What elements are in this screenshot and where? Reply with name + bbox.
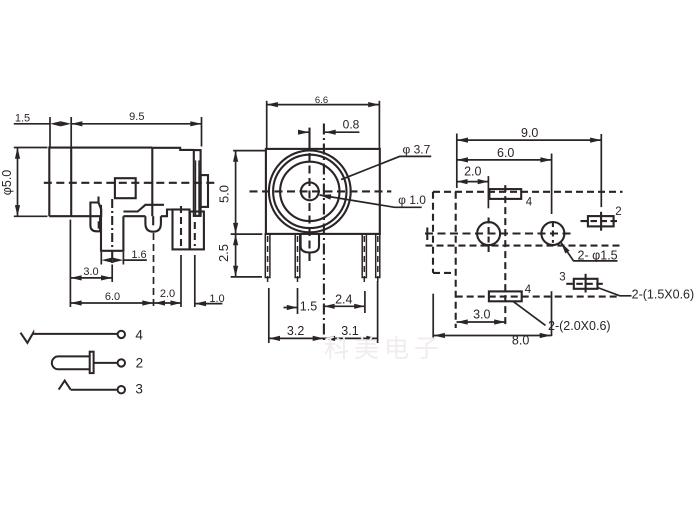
svg-text:2- φ1.5: 2- φ1.5 — [578, 249, 618, 263]
svg-text:2: 2 — [615, 206, 621, 218]
svg-text:3.2: 3.2 — [287, 324, 304, 338]
svg-text:科美电子: 科美电子 — [324, 335, 444, 363]
svg-text:2-(2.0X0.6): 2-(2.0X0.6) — [548, 319, 611, 333]
svg-text:4: 4 — [135, 328, 143, 343]
svg-text:2.4: 2.4 — [335, 293, 352, 307]
svg-text:φ 1.0: φ 1.0 — [398, 193, 426, 207]
svg-text:2.0: 2.0 — [160, 288, 175, 300]
svg-text:2-(1.5X0.6): 2-(1.5X0.6) — [632, 287, 695, 301]
svg-text:1.5: 1.5 — [15, 113, 30, 125]
svg-text:9.5: 9.5 — [129, 111, 144, 123]
svg-text:1.6: 1.6 — [131, 249, 146, 261]
svg-text:6.6: 6.6 — [315, 95, 328, 106]
svg-text:3: 3 — [559, 272, 565, 284]
svg-text:2.0: 2.0 — [464, 165, 481, 179]
svg-text:φ 3.7: φ 3.7 — [403, 142, 431, 156]
svg-text:3: 3 — [135, 382, 143, 397]
svg-text:1.5: 1.5 — [300, 300, 317, 314]
svg-text:9.0: 9.0 — [521, 126, 538, 140]
svg-text:6.0: 6.0 — [105, 291, 120, 303]
svg-text:5.0: 5.0 — [217, 185, 232, 203]
svg-text:4: 4 — [525, 284, 532, 296]
svg-text:0.8: 0.8 — [343, 118, 360, 132]
svg-text:6.0: 6.0 — [497, 146, 514, 160]
svg-text:8.0: 8.0 — [512, 334, 529, 348]
svg-text:φ5.0: φ5.0 — [0, 170, 14, 196]
svg-text:3.0: 3.0 — [83, 266, 98, 278]
svg-text:1.0: 1.0 — [209, 293, 224, 305]
svg-text:2.5: 2.5 — [216, 244, 231, 262]
svg-text:4: 4 — [526, 197, 533, 209]
svg-text:3.0: 3.0 — [473, 308, 490, 322]
svg-text:2: 2 — [136, 355, 144, 370]
